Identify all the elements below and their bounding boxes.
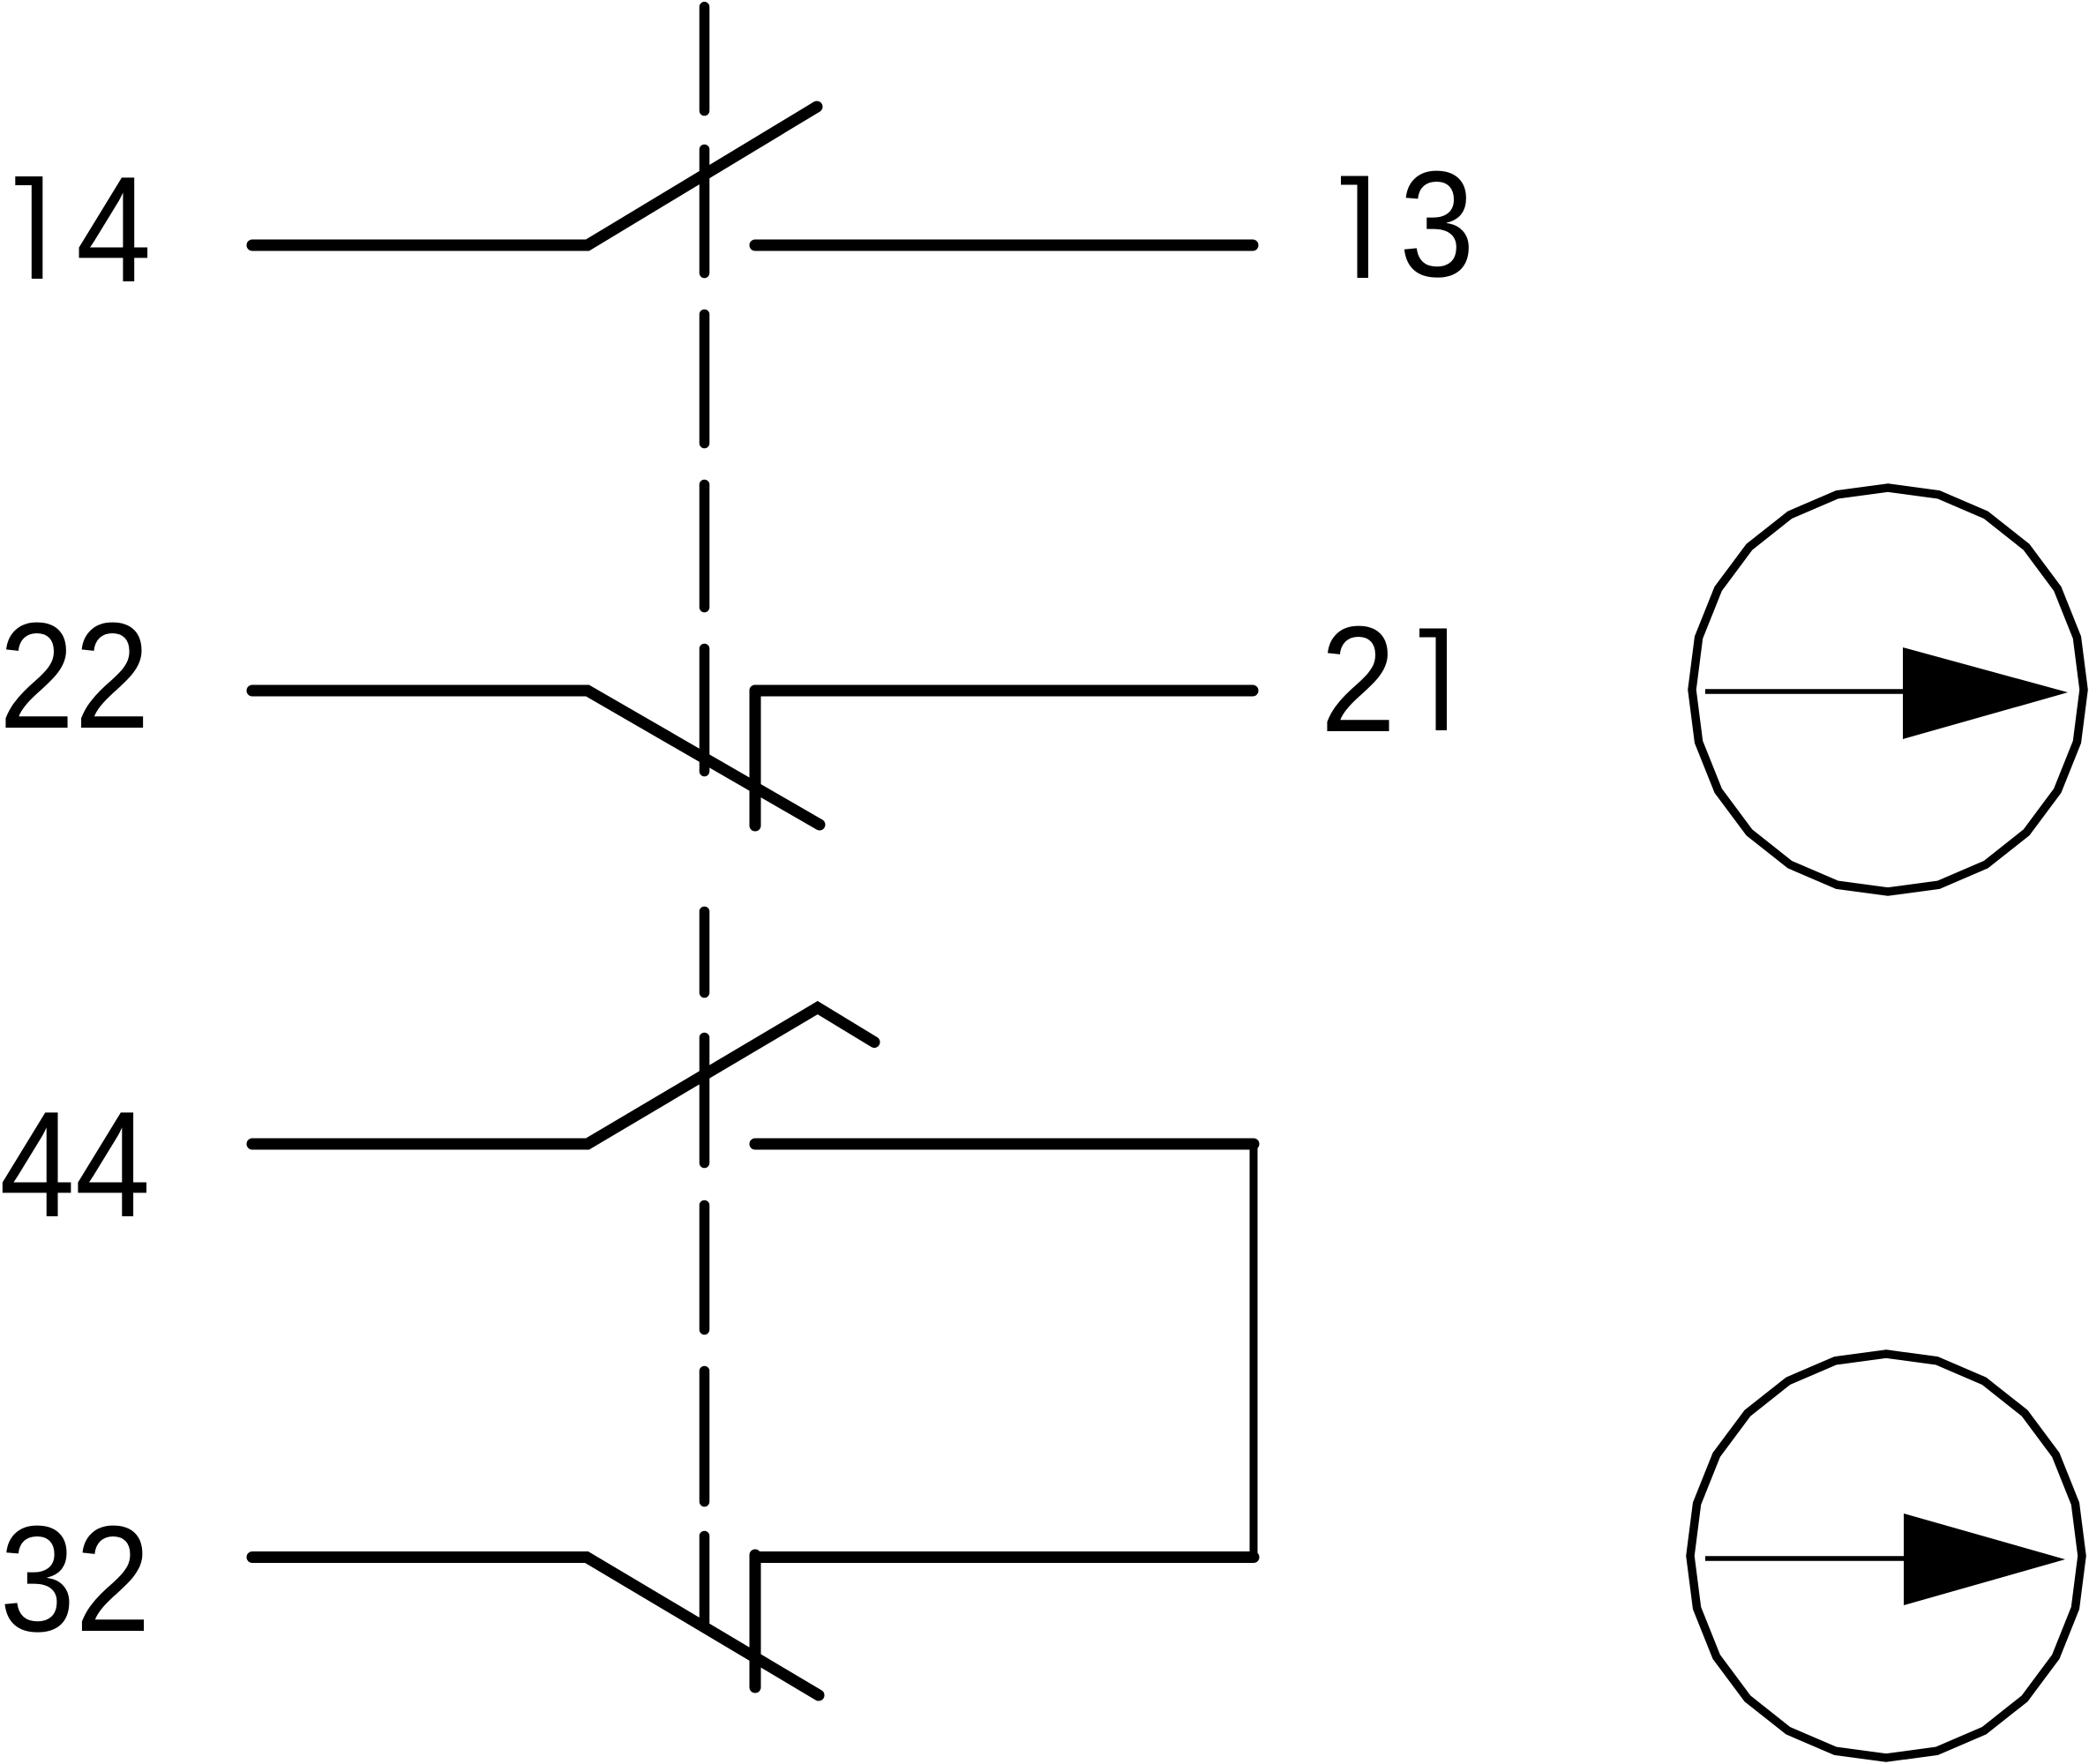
terminal label 32 [0, 1496, 151, 1663]
contact NC 21-22 right wire [755, 685, 1253, 697]
svg-text:44: 44 [0, 1081, 150, 1249]
contact NC 32 right wire [755, 1551, 1254, 1563]
terminal label 14 [15, 176, 42, 279]
svg-text:22: 22 [0, 593, 150, 760]
actuator 2 arrowhead [1904, 1514, 2065, 1605]
terminal label 22 [0, 593, 150, 760]
svg-text:3: 3 [1399, 141, 1475, 309]
svg-text:32: 32 [0, 1496, 151, 1663]
svg-text:2: 2 [1321, 596, 1396, 764]
actuator 1 arrowhead [1903, 647, 2068, 739]
mechanical linkage dashed line [700, 7, 710, 1623]
contact NC 32 left wire and moving contact [252, 1558, 819, 1696]
contact NO 44 left wire and moving contact with hook [252, 1008, 874, 1145]
contact NC 21-22 fixed bar [750, 691, 761, 826]
terminal label 13 [1341, 176, 1368, 279]
contact NC 21-22 left wire and moving contact [252, 691, 820, 825]
contact NO 13-14 left wire [252, 107, 817, 245]
terminal label 44 [0, 1081, 150, 1249]
actuator 1 arrow shaft [1705, 689, 1906, 694]
contact NO 44 right wire [755, 1139, 1254, 1150]
actuator 2 arrow shaft [1705, 1556, 1906, 1561]
contact NO 13-14 right wire [755, 240, 1253, 251]
terminal label 21 [1321, 596, 1396, 764]
actuator head circle 2 [1690, 1354, 2082, 1758]
bracket wire joining 44 to 32 [1250, 1144, 1258, 1558]
contact NC 32 fixed bar [750, 1555, 761, 1687]
actuator head circle 1 [1692, 488, 2084, 892]
svg-text:4: 4 [76, 146, 152, 314]
